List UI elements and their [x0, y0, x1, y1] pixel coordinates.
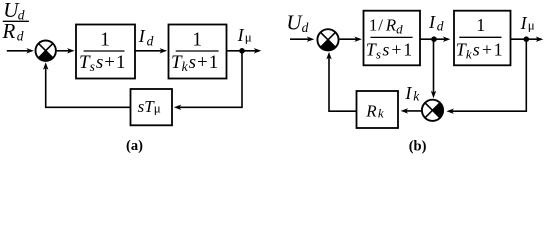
svg-text:k: k	[378, 106, 384, 121]
input label Ud (b)	[286, 11, 308, 35]
feedback wire down/left (a)	[174, 51, 242, 110]
svg-text:R: R	[2, 19, 16, 43]
svg-text:μ: μ	[528, 17, 535, 32]
svg-text:I: I	[404, 83, 412, 103]
wire block1 to block2 with label Id	[135, 48, 167, 53]
node label Id (a)	[138, 26, 154, 49]
block 1/(Tk s+1) (b)	[454, 11, 511, 66]
svg-text:R: R	[365, 101, 377, 120]
svg-text:1: 1	[192, 30, 202, 51]
summing junction SB2	[422, 100, 443, 121]
wire SB2 to Rk	[401, 108, 422, 113]
junction dot Id (b)	[431, 36, 437, 42]
wire input arrow (a)	[7, 48, 34, 53]
svg-text:d: d	[302, 20, 309, 35]
wire SB1 to block1b	[340, 37, 362, 42]
svg-text:Tss+1: Tss+1	[79, 52, 125, 74]
svg-text:I: I	[520, 13, 528, 33]
wire input arrow (b)	[290, 37, 314, 42]
block sTmu	[131, 89, 173, 125]
junction dot Imu (b)	[524, 36, 530, 42]
wire SA to block1	[57, 48, 75, 53]
node label Imu (b)	[520, 13, 535, 33]
svg-text:I: I	[138, 26, 146, 46]
block Rk	[357, 91, 399, 128]
svg-text:1: 1	[476, 15, 485, 35]
svg-text:Tks+1: Tks+1	[456, 39, 503, 61]
svg-text:d: d	[147, 33, 154, 48]
wire Rk left and up to SB1	[326, 52, 356, 111]
svg-text:d: d	[18, 7, 25, 22]
svg-text:μ: μ	[245, 29, 252, 44]
node label Id (b)	[428, 12, 444, 34]
block (1/Rd)/(Ts s+1)	[364, 11, 421, 66]
feedback wire Imu down/left to SB2	[446, 39, 526, 114]
summing junction SA	[36, 41, 56, 61]
svg-text:I: I	[237, 25, 245, 45]
node label Imu (a)	[237, 25, 252, 45]
svg-text:k: k	[413, 89, 420, 104]
svg-text:I: I	[428, 12, 436, 32]
wire sTmu to SA (left and up)	[43, 62, 131, 107]
wire block1b to block2b	[420, 37, 450, 42]
summing junction SB1	[317, 29, 338, 50]
input label Ud/Rd	[2, 0, 29, 43]
node label Ik	[404, 83, 420, 103]
svg-text:d: d	[17, 28, 24, 43]
output wire (b)	[511, 37, 544, 42]
svg-text:sTμ: sTμ	[138, 97, 161, 116]
block 1/(Ts s+1) (a)	[76, 25, 135, 79]
svg-text:Tks+1: Tks+1	[171, 52, 218, 74]
svg-text:d: d	[437, 19, 444, 34]
junction dot (a)	[239, 48, 245, 54]
feedforward wire Id down to SB2	[431, 39, 436, 98]
svg-text:Tss+1: Tss+1	[366, 39, 412, 61]
output wire (a) with arrow	[227, 48, 262, 53]
svg-text:(b): (b)	[409, 139, 427, 155]
svg-text:(a): (a)	[126, 138, 143, 154]
block 1/(Tk s+1) (a)	[169, 25, 227, 79]
svg-text:1: 1	[100, 30, 110, 51]
